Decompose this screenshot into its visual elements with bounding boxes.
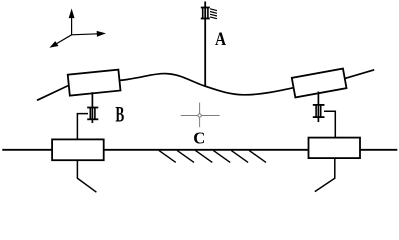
svg-text:A: A [215, 28, 227, 49]
fixed support hatching [210, 9, 217, 19]
wire from B to left isolator [77, 114, 88, 140]
ground hatching [159, 150, 266, 162]
wire from right piezo to right isolator [324, 111, 335, 137]
svg-text:C: C [193, 128, 205, 147]
label A [215, 28, 227, 49]
piezo actuator B stack [87, 108, 98, 120]
svg-text:B: B [115, 102, 124, 126]
coordinate axes [51, 11, 104, 47]
flexible beam curve [37, 70, 374, 101]
crosshair C [181, 103, 220, 128]
right piezo actuator stack [313, 105, 325, 117]
left leg [77, 161, 96, 193]
base line [2, 149, 397, 151]
right isolator block [309, 138, 361, 159]
actuator A wire [204, 2, 206, 87]
actuator A stack [201, 8, 210, 19]
label C [193, 128, 205, 147]
right leg [315, 158, 335, 191]
piezo actuator B wire [91, 92, 93, 123]
left tilted mass block [68, 70, 121, 96]
right piezo actuator wire [317, 92, 319, 123]
right tilted mass block [292, 69, 347, 98]
left isolator block [52, 139, 104, 160]
label B [115, 102, 124, 126]
